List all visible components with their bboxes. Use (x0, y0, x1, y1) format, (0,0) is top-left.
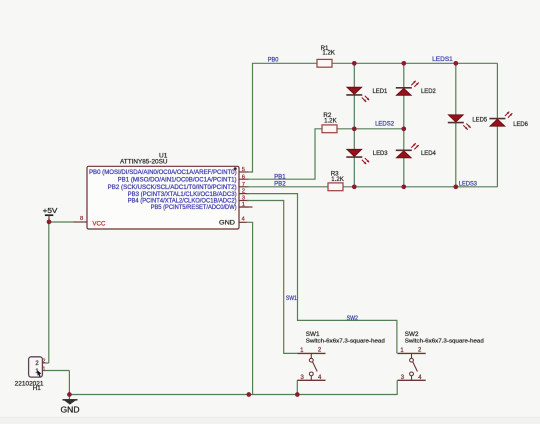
svg-text:1.2K: 1.2K (322, 50, 335, 57)
svg-text:LED5: LED5 (472, 116, 487, 123)
svg-text:PB5 (PCINT5/RESET/ADC0/DW): PB5 (PCINT5/RESET/ADC0/DW) (151, 204, 237, 211)
svg-text:PB0: PB0 (268, 57, 279, 64)
svg-text:GND: GND (61, 405, 80, 414)
svg-text:2: 2 (242, 189, 245, 195)
svg-text:VCC: VCC (92, 221, 105, 228)
svg-text:GND: GND (219, 219, 236, 226)
svg-text:1.2K: 1.2K (324, 118, 337, 125)
svg-text:1: 1 (43, 366, 46, 372)
svg-text:LED6: LED6 (513, 121, 528, 128)
svg-text:SW2: SW2 (347, 315, 359, 322)
svg-text:Switch-6x6x7.3-square-head: Switch-6x6x7.3-square-head (405, 339, 484, 345)
svg-text:LEDS1: LEDS1 (432, 56, 453, 63)
svg-text:5: 5 (242, 167, 245, 173)
svg-text:SW2: SW2 (405, 331, 419, 338)
svg-text:H1: H1 (33, 385, 42, 392)
svg-text:SW1: SW1 (306, 331, 320, 338)
svg-text:Switch-6x6x7.3-square-head: Switch-6x6x7.3-square-head (306, 339, 385, 345)
svg-text:ATTINY85-20SU: ATTINY85-20SU (120, 159, 168, 166)
svg-text:8: 8 (80, 216, 83, 222)
svg-text:LED4: LED4 (421, 150, 436, 157)
svg-text:LEDS2: LEDS2 (375, 121, 395, 128)
svg-text:LED3: LED3 (373, 150, 388, 157)
svg-text:1.2K: 1.2K (331, 176, 344, 183)
svg-text:1: 1 (242, 202, 245, 208)
svg-text:6: 6 (242, 174, 245, 180)
svg-text:PB1 (MISO/DO/AIN1/OC0B/OC1A/PC: PB1 (MISO/DO/AIN1/OC0B/OC1A/PCINT1) (118, 176, 237, 183)
svg-text:LED1: LED1 (373, 88, 388, 95)
svg-text:PB0 (MOSI/DI/SDA/AIN0/OC0A/OC1: PB0 (MOSI/DI/SDA/AIN0/OC0A/OC1A/AREF/PCI… (89, 169, 237, 176)
svg-text:LED2: LED2 (421, 88, 436, 95)
svg-text:LEDS3: LEDS3 (459, 181, 478, 188)
svg-text:SW1: SW1 (286, 295, 297, 302)
svg-text:2: 2 (43, 358, 46, 364)
svg-text:PB1: PB1 (274, 173, 286, 180)
svg-text:PB2: PB2 (274, 180, 286, 187)
svg-text:3: 3 (242, 196, 245, 202)
svg-text:7: 7 (242, 182, 245, 188)
svg-text:+5V: +5V (43, 206, 58, 215)
